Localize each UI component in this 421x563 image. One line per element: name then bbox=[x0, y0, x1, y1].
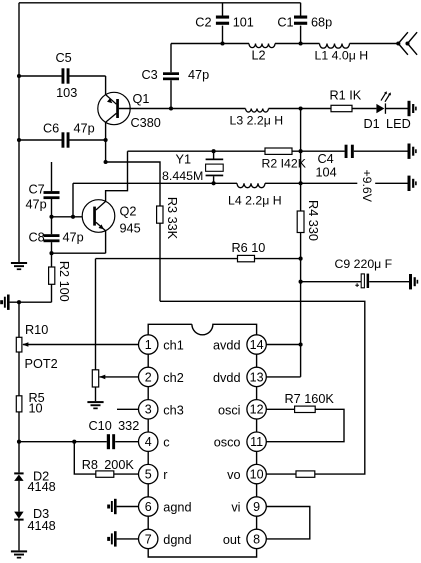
svg-text:R2 100: R2 100 bbox=[57, 261, 71, 302]
svg-text:4148: 4148 bbox=[28, 480, 56, 494]
svg-text:C1: C1 bbox=[277, 15, 293, 29]
svg-text:68p: 68p bbox=[311, 15, 332, 29]
svg-text:47p: 47p bbox=[63, 231, 84, 245]
svg-text:103: 103 bbox=[56, 86, 77, 100]
svg-text:945: 945 bbox=[120, 222, 141, 236]
svg-text:agnd: agnd bbox=[163, 501, 191, 515]
svg-text:D1 LED: D1 LED bbox=[364, 117, 411, 131]
svg-text:C3: C3 bbox=[142, 68, 158, 82]
svg-text:R1 IK: R1 IK bbox=[330, 89, 362, 103]
svg-text:5: 5 bbox=[145, 468, 152, 482]
svg-text:Q2: Q2 bbox=[120, 205, 137, 219]
svg-text:R7 160K: R7 160K bbox=[285, 392, 335, 406]
svg-text:dgnd: dgnd bbox=[163, 533, 191, 547]
svg-text:2: 2 bbox=[145, 370, 152, 384]
svg-text:13: 13 bbox=[250, 370, 264, 384]
svg-text:12: 12 bbox=[250, 403, 264, 417]
svg-text:C10 332: C10 332 bbox=[89, 419, 140, 433]
svg-text:out: out bbox=[223, 533, 241, 547]
svg-text:R4 330: R4 330 bbox=[306, 200, 320, 241]
svg-text:C4: C4 bbox=[318, 152, 334, 166]
svg-text:14: 14 bbox=[250, 338, 264, 352]
svg-text:104: 104 bbox=[316, 165, 337, 179]
svg-text:R3 33K: R3 33K bbox=[165, 197, 179, 240]
svg-text:vi: vi bbox=[231, 501, 240, 515]
svg-text:osci: osci bbox=[218, 403, 241, 417]
svg-text:ch2: ch2 bbox=[163, 371, 183, 385]
svg-text:POT2: POT2 bbox=[25, 357, 58, 371]
svg-text:R10: R10 bbox=[25, 323, 48, 337]
svg-text:L3 2.2μ H: L3 2.2μ H bbox=[230, 114, 284, 128]
svg-text:C6: C6 bbox=[43, 121, 59, 135]
svg-text:9: 9 bbox=[253, 500, 260, 514]
svg-text:c: c bbox=[163, 436, 170, 450]
svg-text:osco: osco bbox=[214, 436, 241, 450]
svg-text:7: 7 bbox=[145, 532, 152, 546]
svg-text:1: 1 bbox=[145, 338, 152, 352]
svg-text:10: 10 bbox=[250, 468, 264, 482]
svg-text:8.445M: 8.445M bbox=[162, 169, 203, 183]
svg-text:Q1: Q1 bbox=[133, 92, 150, 106]
svg-text:dvdd: dvdd bbox=[213, 371, 241, 385]
svg-text:avdd: avdd bbox=[213, 339, 241, 353]
svg-text:6: 6 bbox=[145, 500, 152, 514]
svg-text:vo: vo bbox=[227, 468, 240, 482]
svg-text:ch3: ch3 bbox=[163, 403, 183, 417]
svg-text:C9 220μ F: C9 220μ F bbox=[335, 257, 393, 271]
svg-text:8: 8 bbox=[253, 532, 260, 546]
svg-text:+9.6V: +9.6V bbox=[360, 169, 374, 202]
svg-text:4148: 4148 bbox=[28, 519, 56, 533]
svg-text:C2: C2 bbox=[195, 15, 211, 29]
svg-text:47p: 47p bbox=[74, 121, 95, 135]
svg-text:4: 4 bbox=[145, 435, 152, 449]
svg-text:47p: 47p bbox=[188, 68, 209, 82]
svg-text:C380: C380 bbox=[131, 116, 161, 130]
svg-text:3: 3 bbox=[145, 403, 152, 417]
svg-text:Y1: Y1 bbox=[176, 153, 192, 167]
svg-text:C5: C5 bbox=[56, 51, 72, 65]
svg-text:ch1: ch1 bbox=[163, 339, 183, 353]
svg-text:L4 2.2μ H: L4 2.2μ H bbox=[228, 194, 282, 208]
svg-text:L1 4.0μ H: L1 4.0μ H bbox=[315, 48, 369, 62]
svg-text:11: 11 bbox=[250, 435, 263, 449]
svg-text:C7: C7 bbox=[29, 183, 45, 197]
svg-text:47p: 47p bbox=[26, 198, 47, 212]
svg-text:R2 I42K: R2 I42K bbox=[262, 157, 307, 171]
svg-text:C8: C8 bbox=[29, 231, 45, 245]
svg-text:10: 10 bbox=[29, 402, 43, 416]
svg-text:R8 200K: R8 200K bbox=[82, 458, 135, 472]
svg-text:R6 10: R6 10 bbox=[232, 241, 266, 255]
svg-text:101: 101 bbox=[233, 15, 254, 29]
svg-text:L2: L2 bbox=[252, 49, 266, 63]
